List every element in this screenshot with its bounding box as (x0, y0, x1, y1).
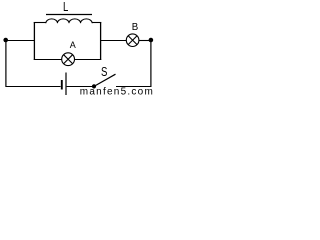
svg-text:B: B (132, 22, 138, 33)
wire: bottom branch right stub from lamp A (74, 59, 101, 61)
wire: bottom branch left stub to lamp A (34, 59, 62, 61)
wire: bottom left horizontal to battery (5, 86, 60, 88)
node: right junction dot (149, 38, 154, 43)
lamp A: bulb circle with cross (62, 53, 75, 66)
wire: left bar of parallel box (33, 22, 35, 60)
wire: right vertical up (150, 40, 152, 87)
wire: left middle horizontal from node to parallel box (6, 40, 35, 42)
inductor L: four-arc coil (46, 19, 92, 23)
wire: left vertical down (5, 40, 7, 87)
svg-text:A: A (70, 40, 76, 50)
wire: top branch stub left (34, 22, 46, 24)
wire: from lamp B to right bar of parallel box (101, 40, 127, 42)
wire: bottom horizontal from battery to switch (67, 86, 93, 88)
svg-text:L: L (63, 0, 68, 14)
inductor L: core line above coil (46, 14, 92, 16)
svg-text:manfen5.com: manfen5.com (80, 86, 153, 95)
switch S: pivot dot (92, 84, 96, 88)
switch S: open blade (94, 74, 116, 86)
wire: bottom horizontal from switch contact to right corner (116, 86, 152, 88)
lamp B: bulb circle with cross (126, 34, 139, 47)
svg-text:S: S (101, 65, 107, 79)
battery cell: long thin plate (positive) (65, 73, 67, 96)
battery cell: short thick plate (negative) (61, 80, 63, 90)
node: left junction dot (3, 38, 8, 43)
wire: top branch stub right (92, 22, 101, 24)
wire: right bar of parallel box (100, 22, 102, 60)
wire: right horizontal from node to lamp B (139, 40, 151, 42)
